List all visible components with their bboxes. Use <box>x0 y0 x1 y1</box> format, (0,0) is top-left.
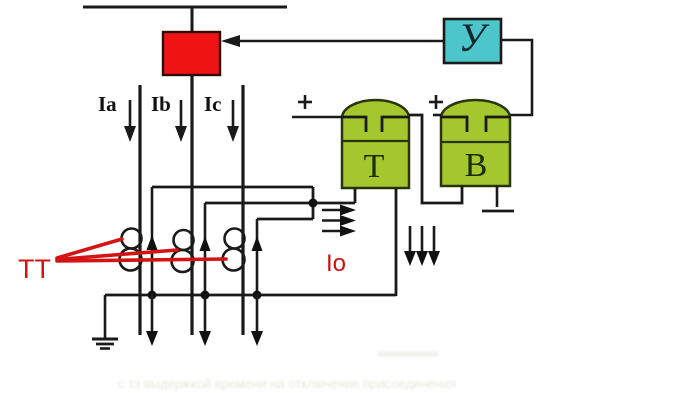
svg-text:Ib: Ib <box>151 92 171 116</box>
svg-text:Т: Т <box>364 148 385 185</box>
svg-text:Ic: Ic <box>204 92 222 116</box>
svg-text:ТТ: ТТ <box>18 254 51 284</box>
svg-text:с тз выдержкой времени на: с тз выдержкой времени на отключение при… <box>118 376 456 391</box>
svg-text:Io: Io <box>326 250 346 277</box>
svg-text:В: В <box>465 147 488 184</box>
svg-text:Ia: Ia <box>98 92 117 116</box>
